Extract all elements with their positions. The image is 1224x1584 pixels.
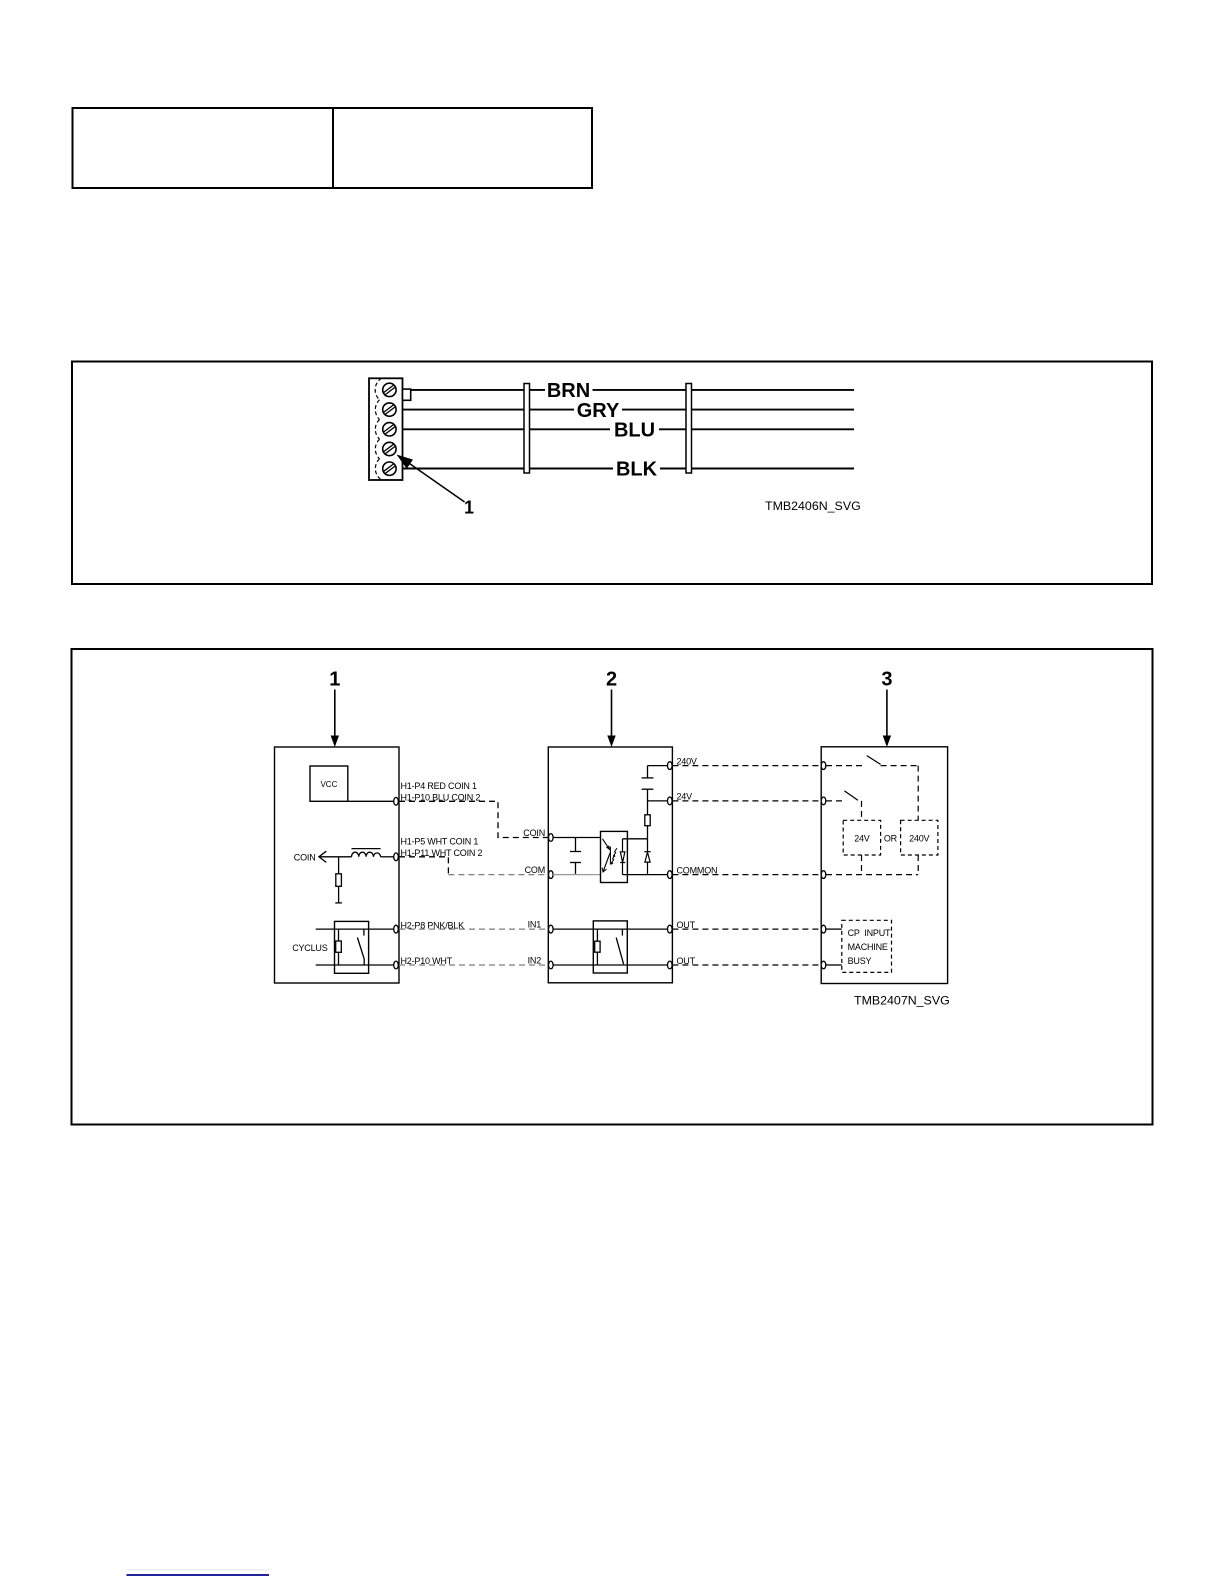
- capacitor C1: [570, 838, 581, 875]
- svg-text:BLU: BLU: [614, 420, 655, 442]
- tab on terminal 1: [403, 389, 411, 400]
- pointer 2: [606, 669, 617, 748]
- LED inside opto: [603, 839, 611, 872]
- scallop dashed profile: [375, 378, 381, 480]
- terminal block TB: [369, 378, 411, 480]
- resistor R2: [645, 801, 650, 852]
- svg-text:H1-P4 RED COIN 1: H1-P4 RED COIN 1: [401, 781, 478, 791]
- block2 right pins: [668, 762, 673, 969]
- svg-text:TMB2407N_SVG: TMB2407N_SVG: [854, 993, 950, 1007]
- svg-text:24V: 24V: [854, 834, 870, 844]
- svg-text:OUT: OUT: [677, 956, 696, 966]
- wire BLU: [403, 428, 855, 430]
- svg-text:OUT: OUT: [677, 920, 696, 930]
- svg-text:COIN: COIN: [523, 828, 545, 838]
- screw 3: [383, 423, 396, 436]
- wire BRN: [403, 389, 855, 391]
- opto top-right wire: [623, 838, 648, 840]
- wire L1 to pin: [381, 856, 396, 858]
- callout arrow 1: [397, 455, 475, 518]
- 24V wire: [648, 800, 670, 802]
- dashed wire pinA to COIN: [399, 801, 548, 837]
- svg-text:CYCLUS: CYCLUS: [292, 943, 328, 953]
- wire COIN: [319, 856, 352, 858]
- svg-text:24V: 24V: [677, 792, 693, 802]
- svg-text:MACHINE: MACHINE: [848, 942, 888, 952]
- screw 1: [383, 383, 396, 396]
- svg-text:240V: 240V: [677, 756, 697, 766]
- IN1 wire: [553, 928, 670, 930]
- dashed returns to COMMON: [826, 855, 918, 875]
- switch S2 (24V): [826, 791, 862, 820]
- dashed interconnects block2-block3: [672, 766, 823, 965]
- 24V source box: [843, 820, 880, 855]
- block 3 (machine): [821, 747, 947, 984]
- svg-text:240V: 240V: [909, 834, 929, 844]
- dashed wire pinB to COM: [399, 857, 448, 875]
- svg-text:COM: COM: [525, 865, 545, 875]
- dashed wire COM segment (grey): [448, 874, 548, 876]
- COM wire to opto (grey): [553, 874, 601, 876]
- switch S1 (240V): [826, 756, 918, 821]
- svg-text:GRY: GRY: [577, 400, 620, 422]
- svg-text:IN2: IN2: [528, 956, 542, 966]
- diode D1: [644, 852, 650, 875]
- footer link line: [127, 1569, 271, 1571]
- capacitor C2: [642, 766, 654, 801]
- svg-text:1: 1: [329, 669, 340, 691]
- cyclus internal resistor: [336, 929, 342, 965]
- wire GRY: [403, 409, 855, 411]
- 240V wire: [648, 765, 670, 767]
- svg-text:CP INPUT: CP INPUT: [848, 928, 891, 938]
- screw 2: [383, 403, 396, 416]
- svg-text:BUSY: BUSY: [848, 956, 872, 966]
- VCC box: [310, 766, 348, 801]
- svg-text:1: 1: [464, 498, 474, 518]
- cyclus wires: [316, 929, 396, 965]
- svg-text:TMB2406N_SVG: TMB2406N_SVG: [765, 499, 861, 513]
- block1 pin ellipses: [394, 797, 399, 969]
- block3 left pins: [821, 762, 826, 969]
- COIN wire to opto: [553, 837, 601, 839]
- pointer 1: [329, 669, 340, 748]
- svg-text:BLK: BLK: [616, 459, 658, 481]
- dashed wire IN2: [399, 964, 548, 966]
- figure 1 frame: [72, 362, 1152, 585]
- OUT wires to CP box: [826, 929, 842, 965]
- cable clamp bar 1: [524, 384, 530, 474]
- svg-text:IN1: IN1: [528, 920, 542, 930]
- FIGURE 1 content: [369, 378, 861, 517]
- figure 2 frame: [72, 649, 1153, 1125]
- wire BLK: [403, 468, 855, 470]
- resistor R1: [335, 857, 342, 903]
- wire VCC to pin: [348, 800, 396, 802]
- screw 5: [383, 462, 396, 475]
- light arrows: [611, 848, 617, 863]
- inductor L1: [352, 849, 381, 857]
- svg-text:OR: OR: [884, 834, 898, 844]
- block 2 (interface): [548, 747, 672, 983]
- svg-text:2: 2: [606, 669, 617, 691]
- COIN arrow head: [319, 851, 326, 862]
- FIGURE 2 content: [275, 669, 950, 1008]
- block2 left pins: [549, 834, 554, 969]
- svg-text:H1-P5 WHT COIN 1: H1-P5 WHT COIN 1: [401, 837, 479, 847]
- COMMON wire: [623, 874, 670, 876]
- photodiode column: [620, 839, 625, 875]
- svg-text:COMMON: COMMON: [677, 865, 718, 875]
- cyclus switch box: [335, 921, 369, 973]
- block 1 (coin validator): [275, 747, 400, 983]
- cable clamp bar 2: [686, 384, 692, 474]
- cyclus switch blade: [357, 929, 364, 965]
- svg-text:COIN: COIN: [294, 852, 316, 862]
- pointer 3: [881, 669, 892, 748]
- IN2 wire: [553, 964, 670, 966]
- CP INPUT MACHINE BUSY box: [842, 920, 892, 972]
- svg-text:3: 3: [881, 669, 892, 691]
- 240V source box: [901, 820, 938, 855]
- dashed wire IN1: [399, 928, 548, 930]
- empty two-cell table: [73, 108, 593, 188]
- relay box (output switch): [593, 921, 627, 973]
- relay switch blade: [616, 929, 623, 964]
- relay internal resistor: [595, 929, 600, 965]
- optocoupler U1: [601, 831, 628, 882]
- svg-text:BRN: BRN: [547, 380, 590, 402]
- svg-text:VCC: VCC: [320, 780, 337, 789]
- screw 4: [383, 442, 396, 455]
